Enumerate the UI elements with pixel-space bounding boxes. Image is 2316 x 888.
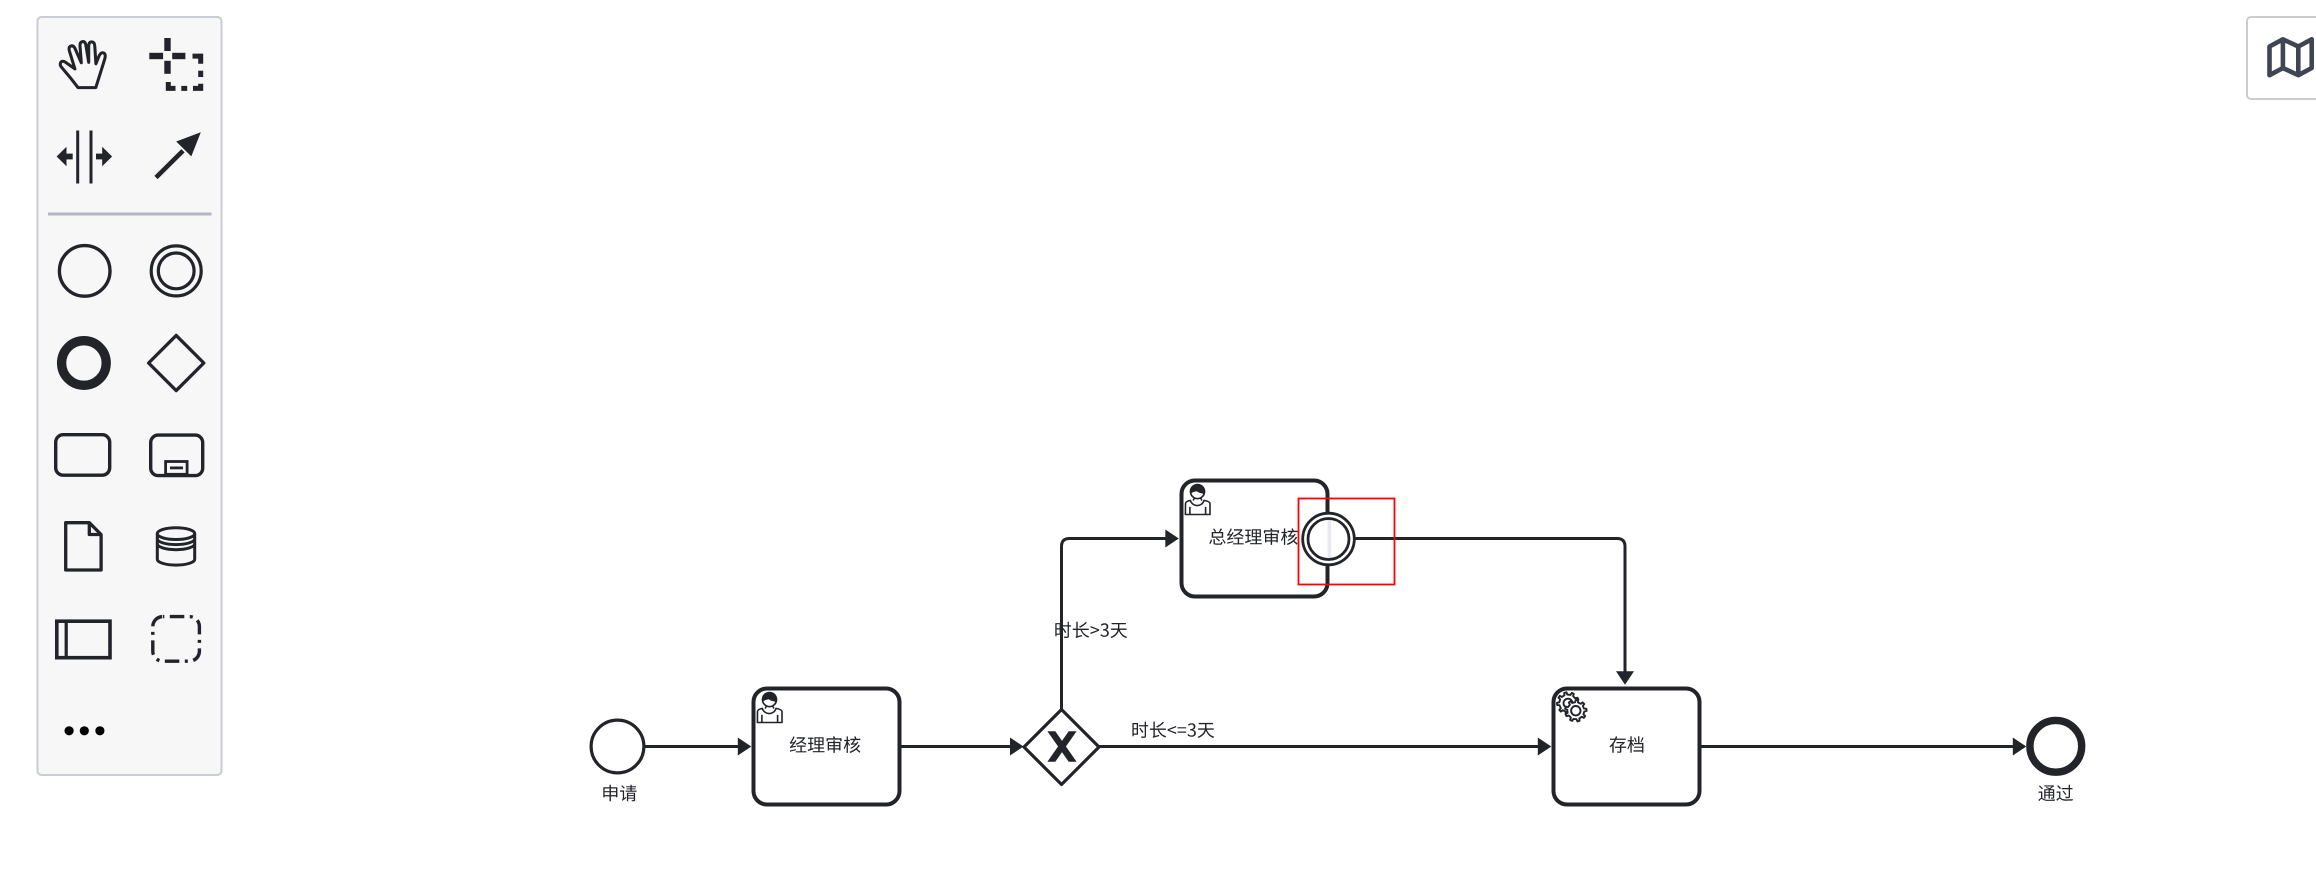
red drop-not-allowed marker xyxy=(1299,499,1395,585)
label 总经理审核 xyxy=(1209,528,1298,545)
palette panel xyxy=(38,17,222,775)
palette: create subprocess xyxy=(151,435,203,476)
palette separator xyxy=(48,213,212,216)
user task 经理审核 xyxy=(754,689,900,805)
label 时长>3天 xyxy=(1055,622,1127,638)
hand tool icon xyxy=(60,42,105,88)
start event 申请 xyxy=(591,720,644,773)
label 经理审核 xyxy=(790,736,861,753)
minimap toggle box xyxy=(2247,17,2316,99)
user task 总经理审核 xyxy=(1182,481,1328,597)
service gear icon (back) xyxy=(1557,692,1579,714)
sequence flow: 存档 -> end xyxy=(1702,745,2016,748)
sequence flow: gateway -> 存档 (时长<=3天) xyxy=(1099,745,1540,748)
space tool icon xyxy=(57,131,113,184)
global connect tool icon xyxy=(156,151,183,178)
palette: create end event xyxy=(62,341,107,386)
palette: create data store xyxy=(157,528,194,565)
gateway X marker xyxy=(1047,731,1076,762)
label 时长<=3天 xyxy=(1132,722,1214,738)
exclusive gateway xyxy=(1024,710,1099,785)
service gear icon (front) xyxy=(1565,700,1587,722)
palette: create gateway xyxy=(149,335,204,390)
label 通过 xyxy=(2038,785,2073,801)
lasso tool icon xyxy=(149,38,185,74)
palette: create group xyxy=(153,617,200,662)
palette: create intermediate event xyxy=(151,246,201,296)
user icon (经理审核) xyxy=(763,693,777,707)
palette: create task xyxy=(56,435,110,476)
sequence flow: 经理审核 -> gateway xyxy=(902,745,1013,748)
minimap map icon xyxy=(2270,39,2312,75)
label 存档 xyxy=(1610,736,1644,753)
sequence flow: 总经理审核 -> 存档 xyxy=(1356,539,1626,674)
sequence flow: start -> 经理审核 xyxy=(645,745,741,748)
end event 通过 xyxy=(2030,720,2082,772)
service task 存档 xyxy=(1554,689,1700,805)
boundary event on 总经理审核 xyxy=(1303,513,1355,565)
palette: create data object xyxy=(66,523,101,570)
user icon (总经理审核) xyxy=(1191,485,1205,499)
sequence flow: gateway -> 总经理审核 (时长>3天) xyxy=(1062,539,1168,710)
palette: more entries (ellipsis) xyxy=(65,726,105,735)
palette: create participant (pool) xyxy=(57,621,110,658)
palette: create start event xyxy=(59,246,110,297)
label 申请 xyxy=(603,785,636,802)
